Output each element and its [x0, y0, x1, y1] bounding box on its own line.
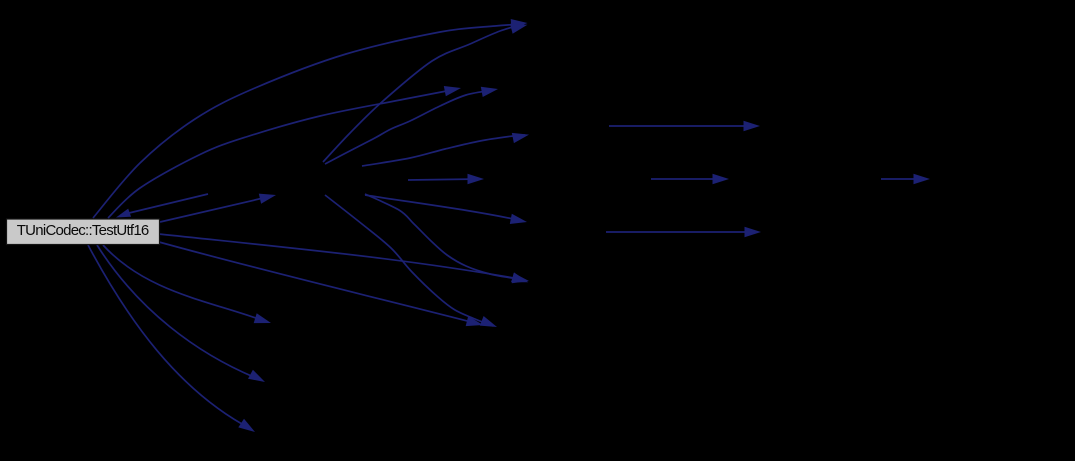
wire edge E17 straight arrow level2 — [609, 125, 756, 127]
arrowhead A15 — [744, 121, 761, 131]
wire edge E8 back edge into box — [129, 194, 208, 213]
svg-text:TUniCodec::TestUtf16: TUniCodec::TestUtf16 — [17, 222, 150, 239]
wire edge E12 box to node A10 — [159, 242, 479, 324]
wire edge E16 mid node to node A11 — [325, 195, 493, 326]
arrowhead A1a — [511, 19, 528, 29]
wire edge E5 mid node to node A4 — [362, 135, 525, 166]
arrowhead A13 — [248, 370, 265, 382]
arrowhead A2 — [444, 86, 461, 96]
arrowhead A4 — [512, 133, 529, 143]
arrowhead A10 — [466, 316, 483, 326]
arrowhead A17 — [914, 174, 931, 184]
wire edge E1 box to node A1 — [93, 24, 524, 218]
wire edge E15 box to node A14 — [88, 245, 251, 429]
arrowhead A16 — [713, 174, 730, 184]
wire edge E20 straight arrow level2 — [606, 231, 757, 233]
arrowhead A9b — [511, 272, 528, 282]
arrowhead A6 — [259, 194, 276, 204]
wire edge E10 box to node A9 — [159, 234, 525, 280]
wire edge E2 box to node A2 — [108, 89, 457, 218]
arrowhead A8 — [510, 214, 527, 224]
wire edge E9 mid node to node A8 — [365, 195, 523, 221]
arrowhead A11 — [480, 316, 497, 327]
node TUniCodec::TestUtf16 — [7, 219, 160, 245]
wire edge E13 box to node A12 — [103, 245, 267, 322]
wire edge E3 mid node to node A1 — [323, 24, 524, 162]
wire edge E14 box to node A13 — [97, 245, 261, 380]
wire edge E7 box to first level node — [160, 196, 272, 222]
wire edge E18 straight arrow level2 — [651, 178, 725, 180]
arrowhead A12 — [254, 313, 271, 323]
arrowhead A9a — [512, 273, 529, 283]
wire edge E11 mid node S curve to node A9 — [365, 194, 525, 280]
arrowhead A1b — [510, 24, 527, 34]
arrowhead A18 — [745, 227, 762, 237]
arrowhead A5 — [468, 174, 485, 184]
wire edge E4 mid node to node A3 — [325, 90, 494, 164]
arrowhead A7 back edge into box — [116, 209, 131, 218]
wire edge E6 horizontal short arrow — [408, 179, 480, 180]
arrowhead A3 — [481, 87, 498, 97]
arrowhead A14 — [238, 419, 255, 432]
wire edge E19 straight arrow level3 — [881, 178, 926, 180]
